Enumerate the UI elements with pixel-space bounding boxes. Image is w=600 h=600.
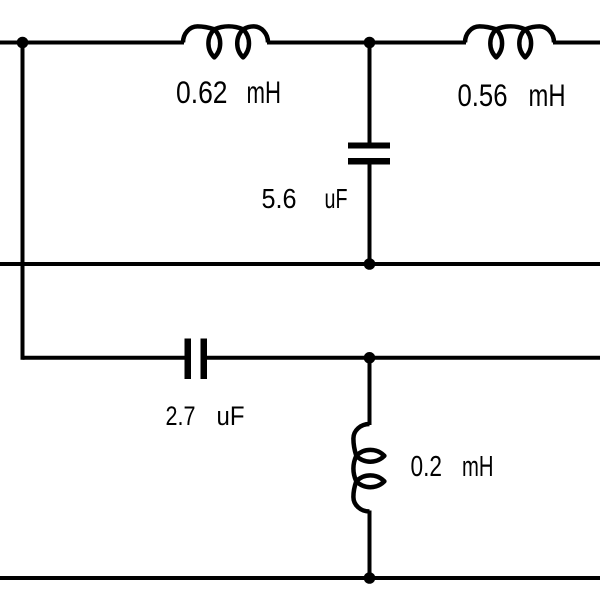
wire second rail	[0, 262, 600, 266]
junction dot at top-left node	[17, 37, 29, 49]
svg-text:mH: mH	[529, 77, 566, 113]
capacitor C1 5.6 uF top plate	[348, 143, 390, 149]
wire top rail right segment	[553, 41, 600, 45]
wire third rail left segment	[23, 356, 186, 360]
wire bottom rail	[0, 576, 600, 580]
wire from third rail down to L3	[368, 358, 372, 425]
inductor L2 0.56 mH coil	[465, 26, 496, 42]
wire third rail right segment	[207, 356, 600, 360]
junction dot top rail / C1 branch	[364, 37, 376, 49]
junction dot bottom rail / L3 branch	[364, 572, 376, 584]
svg-text:mH: mH	[247, 74, 282, 110]
svg-text:mH: mH	[462, 451, 494, 483]
junction dot third rail / L3 branch	[364, 352, 376, 364]
capacitor C2 2.7 uF left plate	[185, 339, 192, 380]
svg-text:0.62: 0.62	[176, 74, 228, 110]
inductor L3 0.2 mH coil	[353, 424, 369, 456]
svg-text:uF: uF	[217, 401, 245, 431]
wire left vertical branch	[21, 43, 25, 360]
wire top rail left segment	[0, 41, 184, 45]
wire top rail middle segment	[267, 41, 466, 45]
svg-text:0.56: 0.56	[458, 77, 508, 113]
svg-text:2.7: 2.7	[166, 401, 196, 431]
svg-text:uF: uF	[325, 183, 348, 214]
capacitor C2 2.7 uF right plate	[201, 339, 208, 380]
wire from L3 down to bottom rail	[368, 511, 372, 579]
inductor L1 0.62 mH coil	[183, 26, 214, 42]
svg-text:0.2: 0.2	[411, 451, 443, 483]
wire from C1 down to second rail	[368, 163, 372, 264]
svg-text:5.6: 5.6	[262, 183, 297, 214]
capacitor C1 5.6 uF bottom plate	[348, 158, 390, 165]
junction dot second rail / C1 branch	[364, 258, 376, 270]
wire from top rail down to C1	[368, 43, 372, 145]
